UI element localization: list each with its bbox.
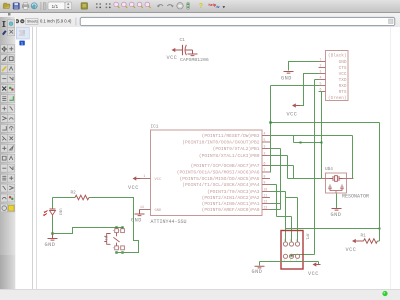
IC1 pin 1 VCC supply symbol (128, 174, 151, 191)
svg-text:C1: C1 (180, 38, 186, 43)
resonator ground (331, 194, 342, 219)
svg-text:(POINT0/AREF/ADC0)PA0: (POINT0/AREF/ADC0)PA0 (202, 207, 260, 213)
svg-text:VCC: VCC (167, 55, 178, 61)
wire LED node to switch top row (53, 228, 123, 234)
left tool palette (0, 17, 16, 289)
svg-text:(POINT4/T1/SCL/USCK/ADC4)PA4: (POINT4/T1/SCL/USCK/ADC4)PA4 (182, 182, 259, 188)
wire lower horizontal to R1 vertical (286, 228, 380, 230)
svg-text:2: 2 (320, 64, 322, 68)
wire branch to ISP right pad column (286, 198, 298, 243)
svg-text:GND: GND (45, 242, 56, 248)
connector FTDI header (326, 51, 349, 102)
status green dot (380, 289, 392, 299)
svg-text:VCC: VCC (346, 247, 357, 253)
svg-text:(POINT2/AIN1/ADC2)PA2: (POINT2/AIN1/ADC2)PA2 (202, 195, 260, 201)
svg-text:3: 3 (320, 70, 322, 74)
svg-text:VCC: VCC (128, 185, 139, 191)
wire PA4 to ISP middle pad (270, 185, 292, 243)
svg-text:4: 4 (320, 76, 322, 80)
svg-text:GND: GND (281, 76, 292, 82)
connector JP1 ISP header (281, 231, 309, 270)
wire RXD corner down along IC pin column (270, 86, 272, 173)
junction at R1 vertical (379, 228, 381, 230)
junction switch top pins (115, 226, 117, 228)
svg-text:(Black): (Black) (328, 54, 346, 59)
sheets panel (16, 27, 32, 289)
wire FTDI VCC pin (298, 74, 319, 106)
svg-text:GND: GND (131, 218, 142, 224)
svg-text:?: ? (199, 3, 203, 10)
capacitor C1 (167, 38, 209, 63)
wire PB1 ladder down (270, 149, 281, 210)
svg-text:(POINT10/INT0/OC0A/CKOUT)PB2: (POINT10/INT0/OC0A/CKOUT)PB2 (182, 139, 259, 145)
svg-text:8: 8 (264, 174, 266, 178)
svg-text:5: 5 (320, 82, 322, 86)
svg-text:1: 1 (144, 174, 146, 178)
svg-text:VCC: VCC (155, 178, 163, 182)
IC1 pin 14 ground symbol (131, 205, 151, 224)
FTDI pin stubs (319, 58, 326, 92)
svg-text:(POINT6/OC1A/SDA/MOSI/ADC6)PA6: (POINT6/OC1A/SDA/MOSI/ADC6)PA6 (177, 169, 260, 175)
svg-text:(POINT8/XTAL1/CLKI)PB0: (POINT8/XTAL1/CLKI)PB0 (199, 153, 260, 159)
svg-text:1: 1 (320, 58, 322, 62)
svg-text:0.1 inch (5.9 0.4): 0.1 inch (5.9 0.4) (40, 19, 72, 24)
svg-text:R2: R2 (71, 191, 77, 196)
wire LED cathode down (52, 218, 54, 234)
svg-text:U$4: U$4 (325, 167, 333, 172)
wire FTDI RXD horizontal (271, 85, 319, 87)
wire FTDI GND pin (289, 62, 319, 71)
resistor R2 (71, 191, 89, 200)
svg-text:R1: R1 (361, 234, 367, 239)
wire PA7 branch (270, 166, 294, 179)
svg-text:GND: GND (339, 60, 347, 65)
junction TXD at ISP pad (290, 254, 292, 256)
svg-text:(POINT9/XTAL2)PB1: (POINT9/XTAL2)PB1 (213, 146, 260, 152)
svg-text:.tv: .tv (216, 5, 220, 9)
svg-text:12: 12 (264, 199, 268, 203)
svg-text:VCC: VCC (339, 72, 347, 77)
svg-text:CTS: CTS (339, 66, 347, 71)
svg-text:3: 3 (264, 144, 266, 148)
palette tool icons (0, 0, 16, 290)
svg-text:(POINT1/AIN0/ADC1)PA1: (POINT1/AIN0/ADC1)PA1 (202, 201, 260, 207)
svg-text:ATTINY44-SSU: ATTINY44-SSU (151, 219, 187, 225)
resistor R1 (346, 234, 378, 254)
svg-text:GND: GND (331, 212, 342, 218)
wire PB3 row across to resonator right (270, 136, 353, 179)
svg-text:1/1: 1/1 (52, 4, 59, 10)
wire ISP bottom row to VCC (260, 262, 319, 265)
switch S1 (103, 229, 125, 250)
svg-text:U$3: U$3 (58, 209, 63, 217)
status bar (0, 289, 400, 300)
wire FTDI RTS down (319, 92, 322, 179)
svg-text:RESONATOR: RESONATOR (342, 194, 369, 200)
svg-text:5: 5 (264, 138, 266, 142)
svg-text:(POINT5/OC1B/MISO/DO/ADC5)PA5: (POINT5/OC1B/MISO/DO/ADC5)PA5 (180, 176, 260, 182)
vcc supply symbol ISP (308, 262, 321, 277)
svg-text:10: 10 (264, 187, 268, 191)
palette bottom shading (0, 255, 15, 289)
svg-text:(POINT3/T0/ADC3)PA3: (POINT3/T0/ADC3)PA3 (207, 189, 260, 195)
LED U$3 (43, 198, 63, 218)
svg-text:VCC: VCC (308, 271, 319, 277)
wire PB0 to resonator left (270, 156, 322, 179)
junction switch bottom pins (115, 251, 117, 253)
svg-text:6: 6 (320, 88, 322, 92)
svg-text:(POINT7/ICP/OC0B/ADC7)PA7: (POINT7/ICP/OC0B/ADC7)PA7 (191, 163, 260, 169)
svg-text:6: 6 (264, 161, 266, 165)
svg-text:S1: S1 (103, 236, 107, 241)
resonator U$4 (319, 167, 370, 200)
svg-text:IC1: IC1 (151, 125, 159, 130)
sheet number badge (19, 41, 24, 46)
wire switch bottom row (117, 252, 139, 254)
junction TXD joins PB2 wire (300, 142, 302, 144)
svg-text:14: 14 (140, 205, 144, 209)
wire PA3 to ISP left pad column (270, 192, 286, 243)
wire long horizontal to R1 branch (271, 122, 380, 124)
svg-text:13: 13 (264, 205, 268, 209)
svg-text:7: 7 (264, 168, 266, 172)
toolbar icons (0, 0, 400, 13)
svg-text:(Green): (Green) (328, 96, 346, 101)
IC U1 : IC1 ATTINY44-SSU box (151, 125, 263, 226)
svg-text:TXD: TXD (339, 78, 347, 83)
main toolbar row (0, 0, 400, 13)
IC1 right pin stubs with numbers and names (177, 131, 270, 213)
sheet thumbnail (16, 27, 36, 49)
junction at LED ground node (51, 232, 53, 234)
svg-text:GND: GND (155, 209, 163, 213)
command bar row contents (0, 12, 400, 28)
vcc supply symbol FTDI (287, 103, 301, 117)
junctions on long horizontal (269, 121, 271, 123)
svg-text:GND: GND (252, 269, 263, 275)
svg-text:CAPSMB1206: CAPSMB1206 (180, 57, 209, 63)
ground FTDI (281, 72, 294, 82)
wire R1 vertical drop (378, 123, 380, 242)
svg-text:VCC: VCC (287, 112, 298, 118)
svg-text:9: 9 (264, 180, 266, 184)
svg-text:11: 11 (264, 193, 268, 197)
svg-text:RXD: RXD (339, 84, 347, 89)
second toolbar row (command bar) (0, 13, 400, 27)
wire FTDI TXD down (292, 80, 319, 256)
ground under LED (45, 234, 58, 249)
wire PB2 branch to resonator column (294, 136, 322, 143)
svg-text:RTS: RTS (339, 90, 347, 95)
ground ISP (252, 262, 265, 276)
svg-text:4: 4 (264, 131, 266, 135)
svg-text:2: 2 (264, 151, 266, 155)
wire R2 left lead (53, 197, 76, 199)
svg-text:JP1: JP1 (305, 233, 309, 241)
svg-text:(POINT11/RESET/DW)PB3: (POINT11/RESET/DW)PB3 (202, 133, 260, 139)
svg-text:Sheets: Sheets (27, 20, 38, 24)
wire R2 right run down to switch bottom (89, 198, 139, 253)
